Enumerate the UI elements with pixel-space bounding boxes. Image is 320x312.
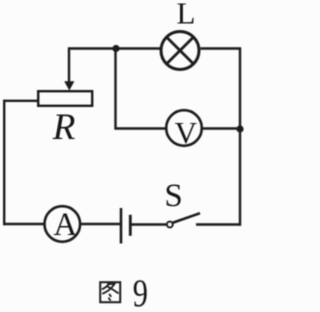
ammeter A1: [45, 206, 81, 243]
wire rheostat left stub: [4, 100, 38, 102]
svg-text:V: V: [175, 115, 198, 150]
wire battery to switch: [132, 223, 168, 225]
node junction right (voltmeter to main loop): [236, 125, 243, 132]
wire top horizontal (rheostat slider to lamp): [69, 47, 160, 49]
svg-text:9: 9: [133, 271, 148, 312]
wire switch right contact: [196, 223, 241, 225]
arrowhead onto rheostat: [64, 81, 74, 90]
rheostat R body: [38, 91, 92, 106]
wire lamp right to top-right corner: [201, 47, 241, 49]
switch S pivot: [167, 222, 173, 228]
wire voltmeter left branch (down from node then right): [116, 49, 167, 129]
wire rheostat slider vertical: [68, 47, 70, 82]
wire left vertical: [3, 100, 5, 226]
wire right vertical: [239, 47, 241, 225]
caption glyph 图 (drawn): [100, 282, 120, 302]
voltmeter V1: [166, 110, 202, 150]
wire bottom-left to ammeter: [3, 223, 44, 225]
lamp L: [161, 32, 199, 70]
svg-text:L: L: [177, 0, 196, 30]
svg-text:S: S: [164, 178, 182, 214]
node junction top (lamp/voltmeter branch): [112, 45, 119, 52]
svg-text:A: A: [53, 207, 77, 243]
battery long plate (positive): [120, 208, 123, 244]
wire ammeter to battery: [81, 223, 121, 225]
battery short plate (negative): [129, 215, 132, 236]
svg-text:R: R: [52, 107, 76, 148]
wire voltmeter right: [203, 127, 241, 129]
switch S blade: [172, 213, 200, 223]
